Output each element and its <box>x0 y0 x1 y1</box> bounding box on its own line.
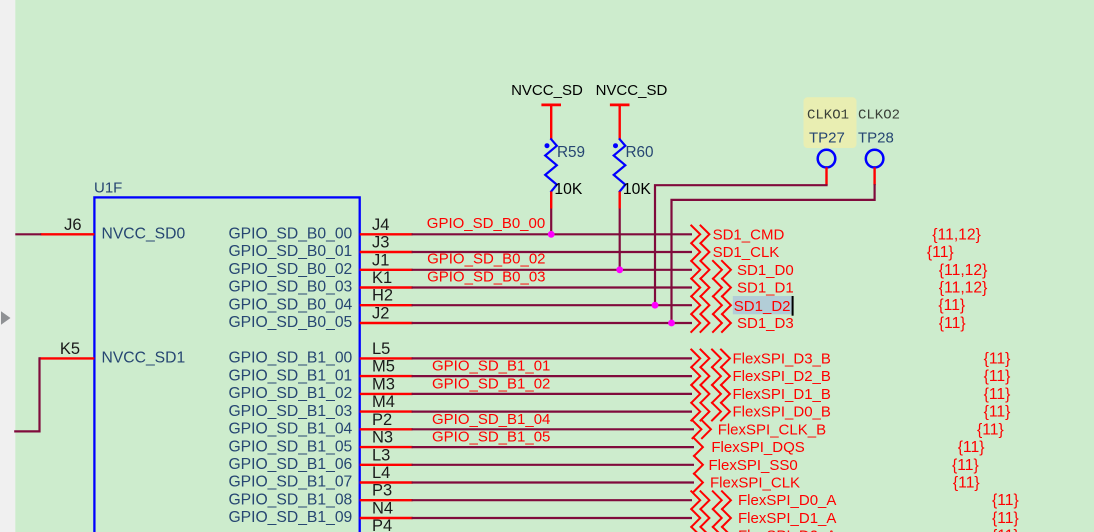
svg-text:{11,12}: {11,12} <box>932 226 981 243</box>
wire R59 to row J4 <box>550 209 552 235</box>
squiggle FlexSPI_D0_A <box>691 491 731 509</box>
wire row K1 <box>412 286 692 288</box>
svg-text:{11}: {11} <box>952 457 979 474</box>
svg-text:SD1_CMD: SD1_CMD <box>713 226 785 243</box>
wire row J1 <box>412 269 692 271</box>
svg-text:R59: R59 <box>557 144 585 161</box>
pin H2 GPIO_SD_B0_04 <box>360 304 413 306</box>
pin J1 GPIO_SD_B0_02 <box>360 269 413 271</box>
svg-text:CLKO1: CLKO1 <box>807 108 849 124</box>
svg-text:U1F: U1F <box>94 180 122 197</box>
svg-text:GPIO_SD_B1_02: GPIO_SD_B1_02 <box>228 385 352 402</box>
left panel strip <box>0 0 15 532</box>
wire R60 to row J1 <box>619 209 621 270</box>
svg-text:J1: J1 <box>372 251 389 269</box>
wire row N4 <box>412 517 692 519</box>
svg-text:L3: L3 <box>372 446 390 464</box>
TP27 stub <box>825 167 827 185</box>
svg-text:GPIO_SD_B1_04: GPIO_SD_B1_04 <box>432 411 550 428</box>
testpoint TP28 <box>866 150 884 168</box>
squiggle FlexSPI_D1_A <box>691 509 731 527</box>
squiggle SD1_CMD <box>691 226 709 244</box>
TP28 stub <box>873 167 875 185</box>
pin J6 stub <box>41 233 95 235</box>
svg-text:GPIO_SD_B1_00: GPIO_SD_B1_00 <box>228 350 352 367</box>
selection highlight SD1_D2 <box>733 296 792 314</box>
squiggle FlexSPI_D3_B <box>691 350 730 368</box>
svg-text:{11}: {11} <box>984 350 1011 367</box>
squiggle SD1_D3 <box>691 314 731 332</box>
svg-text:FlexSPI_D1_A: FlexSPI_D1_A <box>738 510 836 527</box>
svg-text:GPIO_SD_B0_05: GPIO_SD_B0_05 <box>228 314 352 331</box>
svg-text:GPIO_SD_B1_02: GPIO_SD_B1_02 <box>432 376 550 393</box>
svg-text:{11}: {11} <box>984 404 1011 421</box>
svg-text:CLKO2: CLKO2 <box>858 108 900 124</box>
svg-text:FlexSPI_DQS: FlexSPI_DQS <box>711 439 804 456</box>
svg-text:GPIO_SD_B1_01: GPIO_SD_B1_01 <box>432 358 550 375</box>
squiggle FlexSPI_CLK <box>694 474 703 492</box>
wire TP27 to row H2 <box>655 185 827 305</box>
svg-text:GPIO_SD_B1_08: GPIO_SD_B1_08 <box>228 491 352 508</box>
IC U1F body <box>94 197 359 532</box>
squiggle FlexSPI_CLK_B <box>693 420 711 438</box>
squiggle SD1_D0 <box>691 261 731 279</box>
wire row P2 <box>412 428 694 430</box>
pin L4 <box>360 481 413 483</box>
svg-text:TP27: TP27 <box>809 130 845 147</box>
wire TP28 to row J2 <box>672 185 875 323</box>
svg-text:FlexSPI_SS0: FlexSPI_SS0 <box>709 457 798 474</box>
svg-text:GPIO_SD_B0_04: GPIO_SD_B0_04 <box>228 296 352 313</box>
wire row L3 <box>412 464 694 466</box>
squiggle FlexSPI_D0_B <box>691 403 730 421</box>
svg-text:GPIO_SD_B1_09: GPIO_SD_B1_09 <box>228 509 352 526</box>
svg-text:{11}: {11} <box>992 510 1019 527</box>
svg-text:10K: 10K <box>554 181 582 198</box>
svg-text:{11}: {11} <box>977 421 1004 438</box>
svg-text:GPIO_SD_B1_01: GPIO_SD_B1_01 <box>228 367 352 384</box>
svg-text:SD1_D2: SD1_D2 <box>734 298 791 315</box>
squiggle SD1_D2 <box>691 296 731 314</box>
squiggle FlexSPI_D1_B <box>691 385 730 403</box>
pin M3 <box>360 393 413 395</box>
wire row J3 <box>412 251 692 253</box>
svg-text:FlexSPI_D0_A: FlexSPI_D0_A <box>738 492 836 509</box>
squiggle FlexSPI_DQS <box>694 438 703 456</box>
pin L5 <box>360 357 413 359</box>
svg-text:R60: R60 <box>626 144 654 161</box>
svg-text:{11}: {11} <box>953 475 980 492</box>
svg-text:K1: K1 <box>372 269 392 287</box>
junction TP27/H2 <box>652 302 659 309</box>
wire row J4 <box>412 233 692 235</box>
svg-text:FlexSPI_CLK_B: FlexSPI_CLK_B <box>718 421 826 438</box>
pin P3 <box>360 499 413 501</box>
svg-text:{11,12}: {11,12} <box>939 280 988 297</box>
svg-text:GPIO_SD_B0_03: GPIO_SD_B0_03 <box>427 268 545 285</box>
wire row H2 <box>412 304 692 306</box>
svg-text:GPIO_SD_B1_05: GPIO_SD_B1_05 <box>228 438 352 455</box>
svg-text:J2: J2 <box>372 305 389 323</box>
svg-text:NVCC_SD1: NVCC_SD1 <box>102 350 186 367</box>
svg-text:{11}: {11} <box>992 492 1019 509</box>
svg-text:H2: H2 <box>372 287 393 305</box>
wire NVCC_SD to R60 <box>619 105 621 139</box>
svg-text:GPIO_SD_B0_01: GPIO_SD_B0_01 <box>228 243 352 260</box>
svg-text:FlexSPI_D1_B: FlexSPI_D1_B <box>733 386 831 403</box>
squiggle FlexSPI_SS0 <box>694 456 703 474</box>
svg-text:FlexSPI_CLK: FlexSPI_CLK <box>710 475 800 492</box>
svg-text:{11}: {11} <box>939 315 966 332</box>
svg-text:FlexSPI_D0_B: FlexSPI_D0_B <box>733 404 831 421</box>
svg-text:GPIO_SD_B0_00: GPIO_SD_B0_00 <box>228 226 352 243</box>
svg-text:{11}: {11} <box>984 386 1011 403</box>
squiggle SD1_CLK <box>691 243 709 261</box>
pin N4 <box>360 517 413 519</box>
squiggle FlexSPI_D2_A <box>691 527 731 532</box>
svg-text:FlexSPI_D2_A: FlexSPI_D2_A <box>738 528 836 532</box>
resistor R60 <box>614 139 626 191</box>
wire R59 lower stub <box>550 192 552 209</box>
svg-text:GPIO_SD_B0_02: GPIO_SD_B0_02 <box>427 251 545 268</box>
svg-text:{11}: {11} <box>927 244 954 261</box>
svg-text:N3: N3 <box>372 429 393 447</box>
svg-text:P2: P2 <box>372 411 392 429</box>
pin K1 GPIO_SD_B0_03 <box>360 286 413 288</box>
wire row P3 <box>412 499 692 501</box>
pin M5 <box>360 375 413 377</box>
wire to J6 <box>15 233 41 235</box>
svg-text:{11}: {11} <box>984 368 1011 385</box>
svg-text:L5: L5 <box>372 340 390 358</box>
pin P2 <box>360 428 413 430</box>
wire row M4 <box>412 411 692 413</box>
svg-text:J4: J4 <box>372 216 389 234</box>
svg-text:TP28: TP28 <box>858 130 894 147</box>
svg-text:N4: N4 <box>372 500 393 518</box>
svg-text:M5: M5 <box>372 358 395 376</box>
svg-text:SD1_D3: SD1_D3 <box>737 315 794 332</box>
squiggle SD1_D1 <box>691 279 731 297</box>
junction TP28/J2 <box>668 320 675 327</box>
svg-text:10K: 10K <box>623 181 651 198</box>
pin K5 stub <box>40 357 95 359</box>
pin J2 GPIO_SD_B0_05 <box>360 322 413 324</box>
svg-text:J6: J6 <box>64 216 81 234</box>
svg-text:FlexSPI_D3_B: FlexSPI_D3_B <box>733 350 831 367</box>
svg-text:NVCC_SD: NVCC_SD <box>596 82 668 99</box>
svg-text:NVCC_SD: NVCC_SD <box>511 82 583 99</box>
pin J4 GPIO_SD_B0_00 <box>360 233 413 235</box>
svg-text:GPIO_SD_B1_04: GPIO_SD_B1_04 <box>228 421 352 438</box>
wire R60 lower stub <box>619 192 621 209</box>
svg-text:GPIO_SD_B1_05: GPIO_SD_B1_05 <box>432 429 550 446</box>
svg-text:GPIO_SD_B1_06: GPIO_SD_B1_06 <box>228 456 352 473</box>
wire NVCC_SD to R59 <box>550 105 552 139</box>
wire row N3 <box>412 446 694 448</box>
junction R59/J4 <box>548 231 555 238</box>
testpoint TP27 <box>818 150 836 168</box>
wire row L4 <box>412 481 694 483</box>
svg-text:M4: M4 <box>372 393 395 411</box>
wire from K5 down <box>15 358 39 431</box>
svg-text:FlexSPI_D2_B: FlexSPI_D2_B <box>733 368 831 385</box>
svg-text:GPIO_SD_B0_03: GPIO_SD_B0_03 <box>228 279 352 296</box>
svg-text:P3: P3 <box>372 482 392 500</box>
wire row J2 <box>412 322 692 324</box>
svg-text:SD1_D0: SD1_D0 <box>737 262 794 279</box>
svg-text:{11}: {11} <box>958 439 985 456</box>
svg-text:P4: P4 <box>372 517 392 532</box>
wire row M3 <box>412 393 692 395</box>
pin N3 <box>360 446 413 448</box>
pin M4 <box>360 410 413 412</box>
panel arrow <box>1 311 11 324</box>
svg-text:GPIO_SD_B0_02: GPIO_SD_B0_02 <box>228 261 352 278</box>
squiggle FlexSPI_D2_B <box>691 367 730 385</box>
svg-text:SD1_D1: SD1_D1 <box>737 280 794 297</box>
svg-text:GPIO_SD_B1_03: GPIO_SD_B1_03 <box>228 403 352 420</box>
svg-text:GPIO_SD_B0_00: GPIO_SD_B0_00 <box>427 215 545 232</box>
svg-text:GPIO_SD_B1_07: GPIO_SD_B1_07 <box>228 474 352 491</box>
svg-text:L4: L4 <box>372 464 390 482</box>
svg-text:SD1_CLK: SD1_CLK <box>713 244 780 261</box>
wire row M5 <box>412 375 692 377</box>
junction R60/J1 <box>616 266 623 273</box>
svg-text:{11}: {11} <box>938 297 965 314</box>
resistor R59 <box>545 139 557 191</box>
svg-text:{11}: {11} <box>992 528 1019 532</box>
svg-text:K5: K5 <box>60 340 80 358</box>
pin L3 <box>360 464 413 466</box>
svg-text:NVCC_SD0: NVCC_SD0 <box>102 226 186 243</box>
pin J3 GPIO_SD_B0_01 <box>360 251 413 253</box>
svg-text:M3: M3 <box>372 375 395 393</box>
svg-text:{11,12}: {11,12} <box>939 262 988 279</box>
wire row L5 <box>412 357 692 359</box>
text caret <box>792 296 794 316</box>
highlight CLKO1 <box>804 97 857 148</box>
svg-text:J3: J3 <box>372 234 389 252</box>
